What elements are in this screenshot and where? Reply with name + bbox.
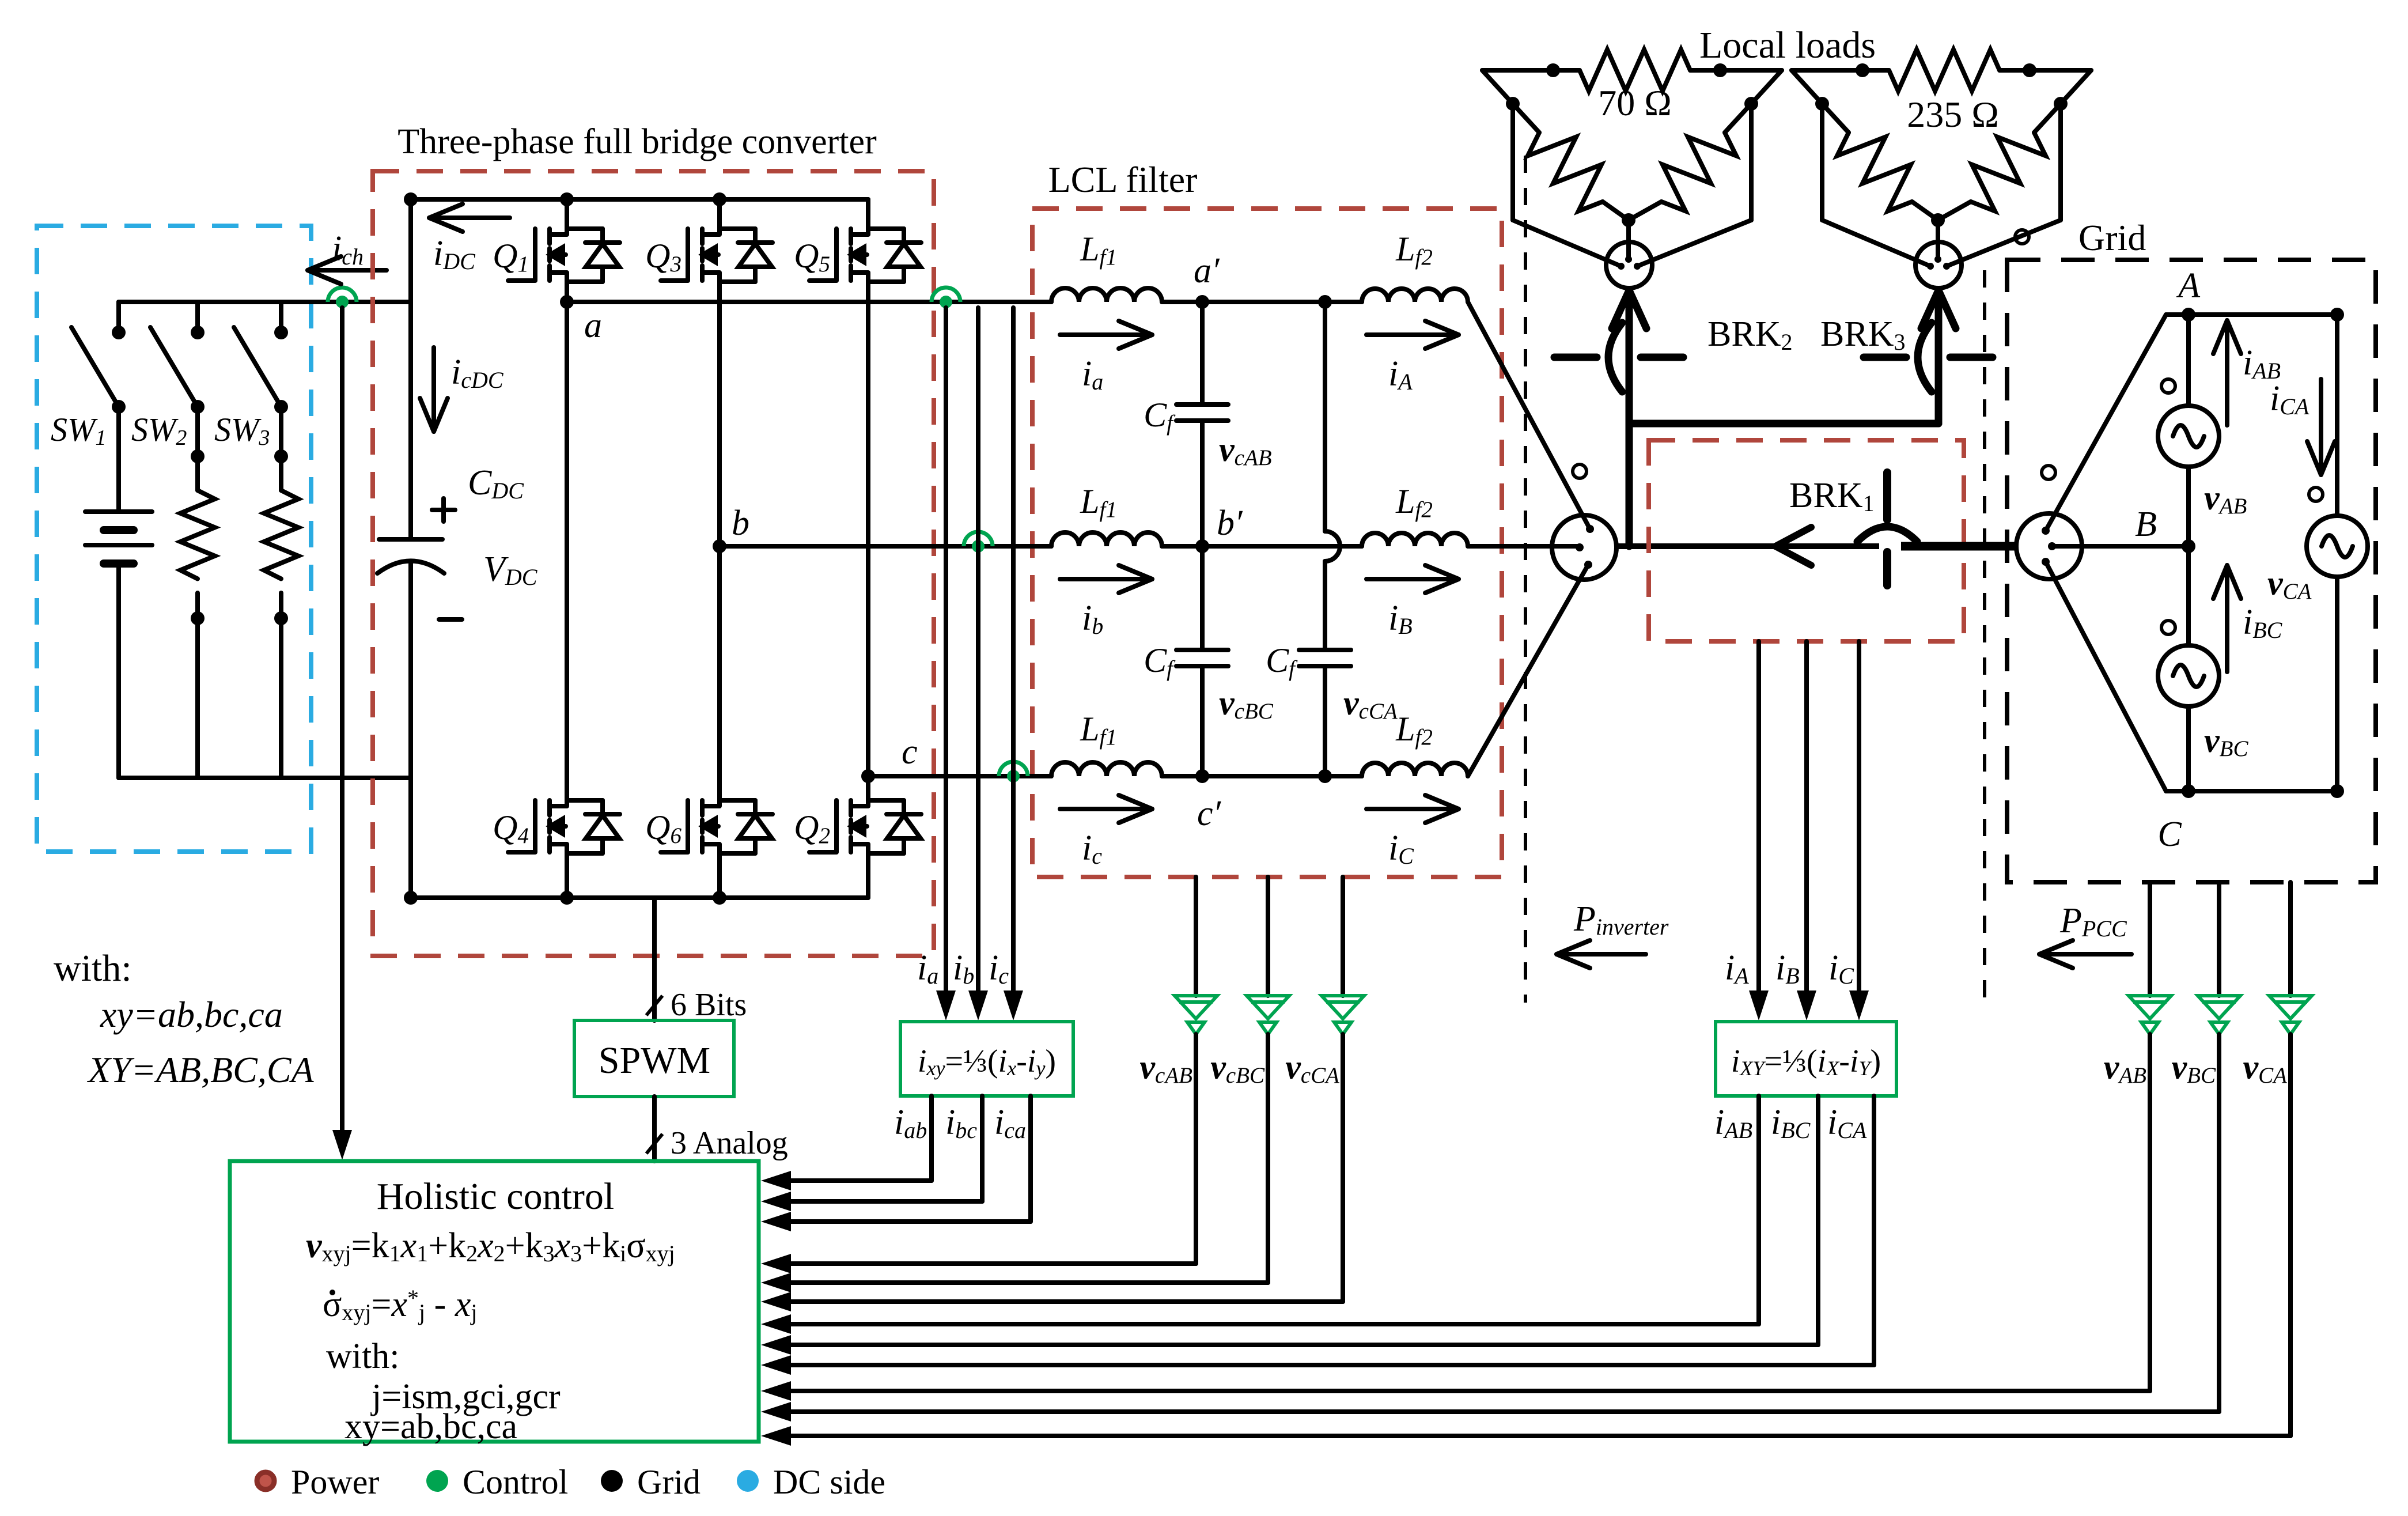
svg-text:Control: Control bbox=[463, 1463, 568, 1501]
wire: filter rail a'-c' bbox=[1200, 302, 1205, 404]
svg-text:BRK3: BRK3 bbox=[1820, 315, 1905, 355]
svg-text:b′: b′ bbox=[1217, 504, 1243, 543]
svg-text:BRK1: BRK1 bbox=[1789, 476, 1874, 516]
wire: v_cCA to controller bbox=[761, 1292, 1343, 1311]
wire: i_BC to controller bbox=[761, 1096, 1818, 1355]
arrow i_DC bbox=[429, 204, 510, 232]
arrow i_a bbox=[1060, 321, 1152, 349]
wires to port circle bbox=[1822, 104, 2061, 266]
junction dots on rails bbox=[404, 192, 418, 206]
inductor Lf2 phase b bbox=[1362, 533, 1468, 546]
arrow i_BC bbox=[2213, 565, 2241, 672]
wire: phase b to filter bbox=[720, 544, 1051, 549]
red dashed box: LCL filter bbox=[1032, 209, 1502, 877]
inductor Lf1 phase b bbox=[1051, 532, 1162, 546]
wire: phase b mid bbox=[1162, 544, 1362, 549]
svg-text:with:: with: bbox=[54, 947, 132, 989]
source v_CA bbox=[2307, 315, 2368, 791]
source v_AB bbox=[2158, 315, 2219, 546]
svg-text:SPWM: SPWM bbox=[599, 1039, 710, 1082]
transistor Q5 bbox=[809, 199, 921, 282]
svg-text:C: C bbox=[2157, 815, 2182, 854]
capacitor Cf (vcAB) bbox=[1176, 404, 1228, 421]
node a' bbox=[1195, 295, 1209, 309]
voltage sensor v_cCA bbox=[1322, 877, 1364, 1302]
three-phase port: load bbox=[1915, 242, 1962, 288]
block Holistic control bbox=[230, 1161, 759, 1442]
wire: v_cAB to controller bbox=[761, 1254, 1196, 1273]
svg-text:Local loads: Local loads bbox=[1699, 24, 1876, 66]
blue dashed box: DC side bbox=[37, 226, 311, 852]
wire: i_C measurement drop bbox=[1849, 641, 1869, 1020]
wire: grid phase C bbox=[2046, 562, 2337, 791]
transistor Q2 bbox=[809, 800, 921, 898]
legend Grid bbox=[601, 1470, 623, 1492]
svg-text:6 Bits: 6 Bits bbox=[671, 987, 747, 1023]
voltage sensor v_BC tap bbox=[2198, 882, 2240, 1412]
delta load 70 &#937; bbox=[1482, 50, 1782, 227]
svg-text:A: A bbox=[2176, 266, 2201, 305]
switch SW1 bbox=[71, 302, 126, 414]
wire: phase c diagonal to inverter port bbox=[1468, 565, 1588, 776]
node b bbox=[713, 539, 726, 553]
slash + label 3 Analog bbox=[646, 1125, 788, 1161]
wire: i_B measurement drop bbox=[1797, 641, 1816, 1020]
arrow i_AB bbox=[2213, 320, 2241, 425]
wire: i_b drop bbox=[968, 308, 988, 1020]
wire: i_AB to controller bbox=[761, 1096, 1759, 1334]
transistor Q3 bbox=[661, 199, 773, 282]
wire: load tie bus bbox=[1629, 420, 1938, 428]
label i_ch with arrow bbox=[308, 256, 387, 284]
wire: v_cBC to controller bbox=[761, 1273, 1268, 1292]
resistor on SW2 branch bbox=[180, 407, 215, 778]
node C bbox=[2182, 784, 2195, 798]
wire: phase a diagonal to inverter port bbox=[1468, 302, 1590, 529]
terminal marker v_BC bbox=[2161, 621, 2175, 634]
arrow i_B bbox=[1366, 565, 1459, 593]
wire: i_CA to controller bbox=[761, 1096, 1874, 1375]
wires to port circle bbox=[1513, 104, 1751, 266]
svg-text:B: B bbox=[2135, 505, 2157, 544]
inductor Lf1 phase c bbox=[1051, 762, 1162, 776]
svg-text:vxyj=k1x1+k2x2+k3x3+kiσxyj: vxyj=k1x1+k2x2+k3x3+kiσxyj bbox=[306, 1226, 675, 1267]
capacitor C_DC bbox=[377, 539, 444, 573]
wire: DC- bottom rail bbox=[411, 895, 868, 900]
transistor Q4 bbox=[508, 800, 620, 898]
transistor Q1 bbox=[508, 199, 620, 282]
wire: grid phase B bbox=[2052, 544, 2189, 549]
wire: i_a drop bbox=[936, 308, 956, 1020]
open terminal marker near BRK3 bbox=[2015, 230, 2029, 244]
dashed boundary P_inverter bbox=[1524, 156, 1527, 1003]
wire: i_A measurement drop bbox=[1749, 641, 1769, 1020]
source v_BC bbox=[2158, 546, 2219, 791]
svg-text:xy=ab,bc,ca: xy=ab,bc,ca bbox=[344, 1407, 517, 1446]
wire: v_AB to controller bbox=[761, 1381, 2150, 1401]
block i_xy = 1/3(i_x-i_y) bbox=[900, 1022, 1073, 1096]
svg-text:Holistic control: Holistic control bbox=[377, 1175, 614, 1218]
switch SW3 bbox=[234, 302, 288, 414]
svg-text:xy=ab,bc,ca: xy=ab,bc,ca bbox=[100, 994, 283, 1035]
breaker BRK2 bbox=[1554, 290, 1683, 546]
node B bbox=[2182, 539, 2195, 553]
svg-text:Power: Power bbox=[291, 1463, 379, 1501]
arrow i_C bbox=[1366, 795, 1459, 823]
dashed boundary PCC bbox=[1983, 270, 1986, 1000]
svg-text:XY=AB,BC,CA: XY=AB,BC,CA bbox=[86, 1049, 315, 1090]
red dashed box: BRK1 bbox=[1649, 440, 1964, 641]
voltage sensor v_CA tap bbox=[2269, 882, 2312, 1436]
arrow i_c bbox=[1060, 795, 1152, 823]
legend Control bbox=[426, 1470, 448, 1492]
current sensor i_c bbox=[999, 762, 1028, 776]
svg-text:a′: a′ bbox=[1194, 251, 1220, 290]
label C_DC + polarity bbox=[432, 463, 524, 619]
three-phase port: grid side bbox=[2016, 513, 2082, 579]
wire: bus BRK1 to grid port bbox=[1901, 542, 2017, 551]
node b' bbox=[1195, 539, 1209, 553]
wire: DC+ top rail bbox=[411, 197, 868, 202]
open terminal marker bbox=[1573, 464, 1587, 478]
legend Power bbox=[257, 1472, 274, 1489]
voltage sensor v_cAB bbox=[1175, 877, 1217, 1264]
wire: i_bc to controller bbox=[761, 1096, 982, 1211]
inductor Lf2 phase c bbox=[1362, 763, 1468, 776]
capacitor Cf (vcBC) bbox=[1176, 650, 1228, 666]
capacitor Cf (vcCA) bbox=[1299, 650, 1351, 666]
svg-text:with:: with: bbox=[326, 1337, 399, 1376]
block SPWM bbox=[574, 1020, 734, 1097]
svg-text:3 Analog: 3 Analog bbox=[671, 1125, 788, 1161]
svg-text:DC side: DC side bbox=[773, 1463, 885, 1501]
three-phase port: inverter side bbox=[1552, 515, 1616, 580]
svg-text:LCL filter: LCL filter bbox=[1048, 159, 1198, 200]
inductor Lf2 phase a bbox=[1362, 289, 1468, 302]
legend DC side bbox=[737, 1470, 759, 1492]
svg-text:c′: c′ bbox=[1197, 794, 1222, 833]
wire: phase leg b vertical bbox=[717, 282, 722, 800]
svg-text:a: a bbox=[584, 306, 602, 345]
wire: gate bus to SPWM bbox=[652, 898, 657, 1020]
wire: v_BC to controller bbox=[761, 1402, 2219, 1422]
wire: SPWM to controller bbox=[652, 1097, 657, 1161]
black dashed box: Grid bbox=[2007, 260, 2376, 882]
wire: i_c drop bbox=[1004, 308, 1023, 1020]
node on second rail phase c bbox=[1318, 769, 1332, 783]
voltage sensor v_cBC bbox=[1247, 877, 1289, 1283]
wire: microgrid bus inverter to BRK1 bbox=[1616, 543, 1879, 549]
node on second rail phase a bbox=[1318, 295, 1332, 309]
wire: i_ab to controller bbox=[761, 1096, 932, 1190]
transistor Q6 bbox=[661, 800, 773, 898]
current sensor i_b bbox=[964, 532, 993, 546]
open terminal marker above grid port bbox=[2042, 466, 2055, 479]
terminal marker v_CA bbox=[2309, 487, 2323, 501]
wire: phase b to inverter port bbox=[1468, 544, 1581, 549]
wire: v_CA to controller bbox=[761, 1426, 2290, 1446]
wire: filter second rail with hop over phase b bbox=[1323, 302, 1327, 531]
svg-text:70 Ω: 70 Ω bbox=[1598, 82, 1672, 123]
three-phase port: load bbox=[1606, 242, 1652, 288]
inductor Lf1 phase a bbox=[1051, 288, 1162, 302]
wire: DC link left rail bbox=[408, 199, 413, 539]
resistor on SW3 branch bbox=[264, 407, 298, 778]
svg-text:BRK2: BRK2 bbox=[1707, 315, 1792, 355]
node A bbox=[2182, 308, 2195, 322]
wire: phase c to filter bbox=[868, 774, 1051, 778]
arrow on bus bbox=[1775, 527, 1811, 546]
arrow i_A bbox=[1366, 321, 1459, 349]
wire: grid phase A bbox=[2046, 315, 2337, 531]
label P_inverter with arrow bbox=[1557, 899, 1669, 968]
arrow i_cDC bbox=[420, 347, 448, 432]
svg-text:Three-phase full bridge conver: Three-phase full bridge converter bbox=[397, 122, 877, 161]
voltage sensor v_AB tap bbox=[2129, 882, 2171, 1391]
slash + label 6 Bits bbox=[646, 987, 747, 1023]
battery B1 bbox=[85, 407, 152, 778]
terminal marker v_AB bbox=[2161, 379, 2175, 393]
wire: DC top bus bbox=[119, 300, 411, 304]
svg-text:b: b bbox=[732, 504, 749, 543]
switch SW2 bbox=[150, 302, 205, 414]
block i_XY = 1/3(i_X-i_Y) bbox=[1716, 1022, 1896, 1096]
wire: phase leg a vertical bbox=[565, 282, 569, 800]
node a bbox=[560, 295, 574, 309]
svg-text:c: c bbox=[902, 732, 918, 772]
svg-text:Grid: Grid bbox=[637, 1463, 701, 1501]
wire: phase c mid bbox=[1162, 774, 1362, 778]
delta load 235 &#937; bbox=[1792, 50, 2091, 227]
wire: phase leg c vertical bbox=[866, 282, 870, 800]
red dashed box: converter bbox=[373, 171, 934, 956]
wire: i_ch measurement drop to controller bbox=[340, 308, 344, 1147]
arrow i_CA bbox=[2307, 379, 2335, 475]
breaker BRK1 bbox=[1857, 472, 1917, 585]
breaker BRK3 bbox=[1864, 290, 1993, 424]
svg-text:235 Ω: 235 Ω bbox=[1907, 94, 1999, 135]
equation sigma_xyj bbox=[330, 1290, 335, 1295]
current sensor i_ch bbox=[328, 288, 357, 302]
node c bbox=[861, 769, 875, 783]
wire: i_ca to controller bbox=[761, 1096, 1031, 1231]
node c' bbox=[1195, 769, 1209, 783]
wire: phase a to filter bbox=[567, 300, 1051, 304]
arrow i_b bbox=[1060, 565, 1152, 593]
svg-text:Grid: Grid bbox=[2078, 217, 2146, 258]
label P_PCC with arrow bbox=[2039, 901, 2131, 968]
current sensor i_a bbox=[932, 288, 960, 302]
wire: DC bottom bus bbox=[119, 776, 411, 780]
wire: phase a mid bbox=[1162, 300, 1362, 304]
